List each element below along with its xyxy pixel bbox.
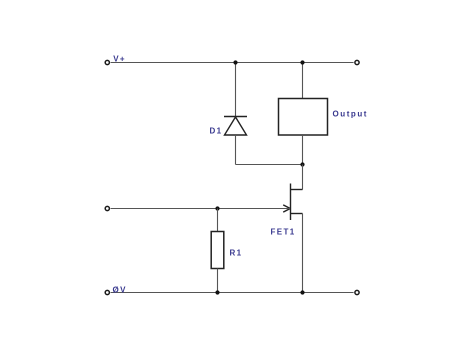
- wire source vertical down: [302, 214, 304, 293]
- node junction bottom rail / R1: [215, 290, 219, 294]
- svg-text:FET1: FET1: [271, 228, 296, 237]
- terminal bottom-left: [105, 290, 109, 294]
- wire diode anode down: [235, 135, 237, 165]
- wire output box top lead: [302, 63, 304, 99]
- wire diode bottom horizontal to drain node: [236, 164, 303, 166]
- wire R1 top lead: [217, 209, 219, 232]
- wire R1 bottom lead: [217, 269, 219, 293]
- transistor FET1: [283, 184, 302, 221]
- terminal top-right: [355, 60, 359, 64]
- resistor R1: [211, 232, 224, 269]
- diode D1: [224, 117, 247, 136]
- terminal middle-left: [105, 206, 109, 210]
- wire output box bottom lead: [302, 135, 304, 165]
- svg-text:ØV: ØV: [113, 285, 127, 294]
- wire drain vertical: [302, 165, 304, 190]
- node junction top rail / output branch: [300, 60, 304, 64]
- terminal top-left: [105, 60, 109, 64]
- svg-text:R1: R1: [230, 249, 243, 258]
- wire V+ top rail: [111, 62, 354, 64]
- svg-text:V+: V+: [113, 55, 126, 64]
- node A diode/drain junction: [300, 162, 304, 166]
- wire gate rail (middle): [111, 208, 290, 210]
- wire 0V bottom rail: [111, 292, 354, 294]
- svg-text:D1: D1: [210, 127, 223, 136]
- node junction bottom rail / source: [300, 290, 304, 294]
- wire diode branch vertical from top rail: [235, 63, 237, 117]
- svg-text:Output: Output: [333, 109, 369, 118]
- node junction gate rail / R1: [215, 206, 219, 210]
- node junction top rail / diode: [233, 60, 237, 64]
- terminal bottom-right: [355, 290, 359, 294]
- output block (box): [279, 99, 328, 136]
